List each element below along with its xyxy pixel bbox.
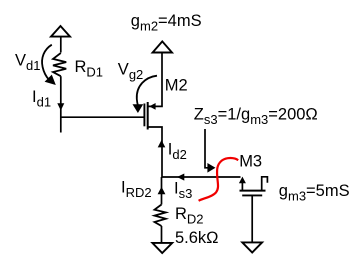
arrow current I_d1 (down)	[57, 103, 64, 110]
pointer arrow from Z_s3 to node	[205, 129, 208, 168]
svg-text:gm3=5mS: gm3=5mS	[279, 182, 350, 204]
M2 drain lead	[148, 53, 162, 107]
wire RD2 to ground	[161, 226, 163, 243]
resistor RD2	[155, 205, 166, 227]
arrow current I_RD2 (up)	[158, 187, 166, 194]
svg-text:gm2=4mS: gm2=4mS	[131, 12, 202, 34]
svg-text:M2: M2	[165, 76, 188, 94]
resistor RD1	[53, 53, 66, 76]
M2 drain arrow (points left)	[149, 103, 155, 110]
power VDD symbol (above M2)	[153, 41, 172, 52]
svg-text:Vg2: Vg2	[118, 60, 143, 82]
svg-text:M3: M3	[239, 152, 262, 170]
svg-text:RD1: RD1	[75, 58, 104, 80]
svg-text:Zs3=1/gm3=200Ω: Zs3=1/gm3=200Ω	[194, 105, 318, 127]
M3 channel bar	[240, 190, 266, 192]
wire node to M2 gate	[61, 116, 145, 118]
arrow current I_d2 (up)	[158, 140, 166, 147]
svg-text:RD2: RD2	[175, 205, 204, 227]
ground symbol (below RD2)	[152, 243, 172, 253]
wire RD1 bottom to stub below junction	[60, 76, 62, 132]
red annotation squiggle at M3 source	[199, 158, 239, 201]
node wire to M3	[162, 176, 241, 178]
voltage arc V_d1	[42, 45, 52, 80]
voltage arc V_g2	[137, 76, 157, 106]
transistor M2 gate bar	[143, 104, 145, 127]
svg-text:IRD2: IRD2	[121, 179, 152, 201]
M3 gate bar	[242, 194, 262, 196]
power VDD symbol (left, above RD1)	[51, 26, 70, 37]
svg-text:5.6kΩ: 5.6kΩ	[175, 229, 219, 247]
svg-text:Id1: Id1	[32, 88, 51, 110]
M3 gate lead to ground	[251, 195, 253, 242]
arrow current I_s3 (left)	[177, 174, 184, 181]
svg-text:Vd1: Vd1	[15, 52, 40, 74]
svg-text:Id2: Id2	[168, 140, 187, 162]
M2 source lead	[148, 127, 162, 177]
transistor M2 channel bar	[147, 102, 149, 130]
wire node down to RD2	[161, 177, 163, 205]
svg-text:Is3: Is3	[174, 180, 192, 202]
wire VDD1 to RD1 top	[60, 37, 62, 53]
M3 drain lead (right hook)	[262, 177, 268, 191]
transistor M3 source lead (left, with up arrow)	[241, 181, 243, 190]
ground symbol (below M3)	[242, 242, 262, 252]
